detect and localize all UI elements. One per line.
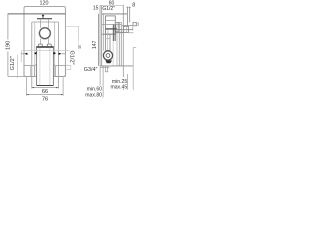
dim 76 extension right [62,77,64,96]
lever inner light lines [39,48,41,85]
svg-text:76: 76 [42,97,48,102]
svg-text:G1/2″: G1/2″ [102,6,115,12]
body to wall cap [115,21,121,23]
dim 190 bottom extension [8,75,24,77]
handle stem bar [37,18,52,20]
svg-text:8: 8 [132,3,135,9]
dim arrow mid-right outer [59,53,62,55]
svg-text:120: 120 [40,1,49,7]
stem small rect [40,19,42,28]
bottom outlet stub left [105,66,107,72]
cartridge dark lines [112,25,114,41]
stem rect [106,34,110,50]
handle stem arrow marker [42,14,44,18]
inner rect top line [32,21,59,23]
inner rect left line [31,22,33,89]
svg-text:15: 15 [93,6,99,12]
svg-text:66: 66 [42,89,48,95]
svg-text:G1/2″: G1/2″ [68,50,74,64]
svg-text:G3/4″: G3/4″ [84,67,98,73]
dim 66 extension left [25,77,27,96]
bottom second line [100,66,110,68]
guide line left (dashed) [34,22,36,76]
wall line 0 [116,22,118,66]
wall line 2 [120,22,122,66]
svg-text:45: 45 [78,45,82,49]
lever bump left [38,44,42,46]
bottom line of side view [100,65,133,67]
body top line [102,13,128,15]
wall line right lower [126,74,128,90]
plate slab front line [98,14,100,66]
body bottom edge [102,33,114,35]
extension line x100 (147 dim line) [99,5,101,66]
dim 66 line [32,87,59,89]
body narrow block [115,22,118,31]
dim line mid horizontal [21,50,69,52]
lever fillet right [53,62,56,66]
side outlet box right [55,66,65,77]
svg-text:G1/2″: G1/2″ [10,56,16,70]
inlet end cap [132,27,134,30]
lever body right edge [52,48,54,86]
dim 8 tick [126,6,131,8]
body inner line 1 [106,20,116,22]
inlet fitting box [123,26,128,32]
knob leader dashed continuation [78,40,80,51]
inlet pipe horizontal top [115,29,133,31]
wall face line [103,14,105,51]
wall step tick [133,47,136,49]
dim arrow mid-left outer [24,53,27,55]
dim 76 line [26,94,63,96]
inlet box inner line [125,26,127,32]
knob leader line to right [65,27,78,41]
left label vertical guides [20,51,22,62]
top pipe right line [129,7,131,22]
wall ext line x103 lower [102,66,104,98]
flange circle [103,51,112,60]
body lower line [115,32,123,34]
knob ring [39,28,50,39]
dim 190 line (vertical) [7,14,9,40]
inner rect right line [57,22,59,89]
svg-text:max.45: max.45 [110,84,127,90]
flange seal wedge [105,60,112,63]
fitting bottom line [122,25,133,27]
lever bump right [47,44,51,46]
wall line 3 (long) [122,22,124,77]
extension line x123.3 top [122,5,124,23]
svg-text:147: 147 [92,40,98,49]
bottom outlet stub right [107,66,109,72]
inlet pipe horizontal bottom [115,31,128,33]
side outlet box left [24,66,35,77]
plate slab back line [101,6,103,66]
dim arrow mid-left inner [35,52,37,54]
flange inner circle [106,54,110,58]
dim 60 line [100,4,123,6]
plate outline (rounded rect) [24,7,65,77]
wall line 1 [118,22,120,66]
stem mid line [106,34,108,50]
dim arrow mid-right inner [53,52,55,54]
fitting lower bits [128,32,133,34]
pipe fitting box [133,22,136,26]
knob lower stems [40,39,42,45]
body inner line 2 [102,24,122,26]
lever top bar [36,46,54,48]
lever body left edge [36,48,38,86]
body dark mid bar [106,28,118,30]
lever bottom bar [37,85,54,87]
svg-text:max.80: max.80 [85,92,102,98]
top pipe left line [126,7,128,26]
body main block [106,16,116,34]
svg-text:190: 190 [5,41,11,50]
G3/4 leader [66,66,70,69]
far right wall line [132,48,134,91]
lever fillet left [34,62,37,66]
wall ext line x100 lower [99,66,101,86]
guide line right (dashed) [54,22,56,76]
cartridge lower light line [112,41,114,66]
lever body fill [36,47,54,86]
pipe fitting step [136,23,138,25]
bottom outlet cap [105,71,109,73]
plate top edge line (dark, with 190 extension to left) [8,13,66,15]
